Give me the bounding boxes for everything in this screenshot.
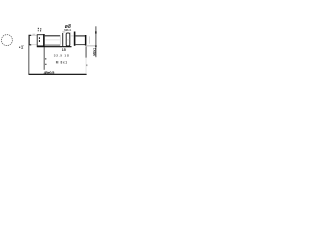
overall dimension line bbox=[29, 73, 87, 75]
mid dimension line bbox=[37, 46, 72, 48]
svg-text:M 8x1: M 8x1 bbox=[56, 60, 68, 64]
barrel end faint edge bbox=[59, 36, 61, 45]
barrel bottom line bbox=[45, 44, 61, 46]
svg-text:32.5 1S: 32.5 1S bbox=[54, 54, 70, 58]
faint smudge above barrel bbox=[32, 33, 35, 36]
right extension dark part bbox=[85, 46, 87, 57]
faint barrel top line bbox=[31, 35, 37, 37]
bullet dot R3 bbox=[45, 64, 46, 65]
flange box b2-b3 bbox=[66, 33, 70, 46]
connector end cap bbox=[85, 35, 87, 46]
nut dot upper bbox=[39, 37, 40, 39]
right dim arrow lower bbox=[95, 45, 97, 47]
svg-text:M8x1: M8x1 bbox=[64, 28, 71, 32]
nut outline bbox=[37, 35, 43, 46]
ring top-left mark bbox=[69, 32, 72, 33]
box centerline bbox=[67, 39, 70, 41]
ring b4 bbox=[74, 32, 76, 46]
nut dot lower bbox=[39, 40, 40, 42]
right dim extension horizontal bbox=[87, 45, 96, 47]
front-view circle bbox=[1, 35, 12, 46]
left extension line bbox=[28, 45, 30, 74]
flange bar b1 bbox=[62, 33, 63, 46]
nut thick right edge bbox=[43, 34, 45, 47]
svg-text:M8x1: M8x1 bbox=[93, 48, 97, 56]
svg-text:45±0.5: 45±0.5 bbox=[44, 70, 55, 75]
right vertical dimension line bbox=[95, 26, 97, 57]
nut extension line bbox=[43, 47, 45, 70]
right extension faint part bbox=[85, 58, 87, 74]
connector bottom line bbox=[75, 44, 85, 46]
bullet dot R2 bbox=[45, 58, 46, 59]
right extension tick bbox=[85, 64, 88, 66]
svg-text:15: 15 bbox=[62, 48, 66, 52]
stub box to ring bbox=[70, 35, 74, 37]
label dots above nut bbox=[38, 28, 39, 29]
faint smudge above b1 bbox=[62, 31, 65, 33]
label dot near circle bbox=[19, 47, 20, 48]
sensing face bracket bbox=[29, 35, 31, 45]
barrel top line bbox=[45, 35, 61, 37]
faint tip line bbox=[89, 36, 91, 43]
right dim arrow upper bbox=[95, 31, 97, 33]
connector top line bbox=[75, 35, 85, 37]
barrel centerline bbox=[46, 39, 60, 41]
faint barrel bottom line bbox=[31, 44, 37, 46]
